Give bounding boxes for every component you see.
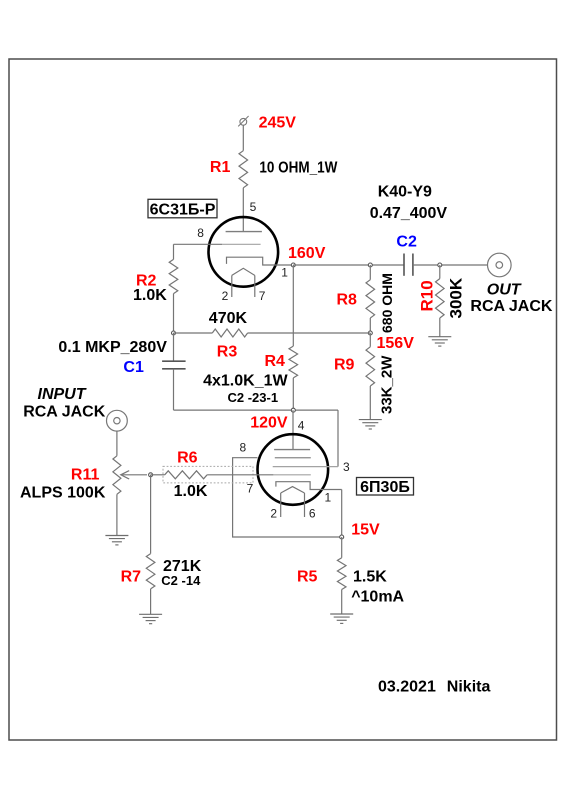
label R5 [297,569,318,586]
wire to R9 [369,333,371,347]
label C1 [123,359,144,376]
wire R1 to U1 plate [242,188,244,232]
svg-text:160V: 160V [288,245,326,262]
value 1.5K [353,569,387,586]
wire 160V bus [293,264,404,266]
svg-text:03.2021: 03.2021 [378,679,436,696]
wire R8 to junction [369,318,371,333]
R11 wiper arrow [121,471,147,479]
wire node A to R3 [174,332,213,334]
svg-text:2: 2 [222,289,229,303]
wire R3 to 156V junction [248,332,371,334]
U2 pin 2 label [270,506,277,520]
svg-text:OUT: OUT [487,282,522,299]
U2 pin 7 label [247,481,254,495]
svg-text:Nikita: Nikita [447,679,491,696]
label R10 [418,280,437,311]
svg-text:RCA JACK: RCA JACK [470,298,553,315]
wire R10 to ground [439,318,441,337]
label 120V [250,415,288,432]
tube U1 envelope [209,217,279,287]
value 0.1 MKP_280V [58,339,167,356]
U1 plate [226,231,262,233]
U2 pin 4 label [298,418,305,432]
U2 plate [274,449,310,451]
label OUT RCA JACK [470,298,553,315]
ground R11 [105,536,128,545]
value C2 -23-1 [228,390,279,405]
svg-text:2: 2 [270,506,277,520]
U1 heater leg pin 2 [231,275,233,297]
svg-text:R3: R3 [217,343,238,360]
svg-text:8: 8 [197,226,204,240]
wire R9 to ground [369,386,371,420]
value 1.0K R6 [174,483,208,500]
label C2 [396,234,417,251]
wire node A to C1 [173,333,175,361]
wire C1 to 120V bus [173,369,175,410]
wire R6 to U2 grid [207,474,273,476]
wire U1 pin 8 grid [174,243,223,245]
wire to R10 [439,265,441,279]
svg-text:R4: R4 [265,353,286,370]
label 15V [351,521,380,538]
svg-text:4: 4 [298,418,305,432]
value K40-Y9 [378,184,432,201]
svg-text:RCA JACK: RCA JACK [23,403,106,420]
U1 cathode [227,257,294,265]
U1 pin 7 label [259,289,266,303]
resistor R1 [239,151,248,188]
value ALPS 100K [20,485,106,502]
svg-text:1.0K: 1.0K [174,483,208,500]
value ^10mA [351,588,404,605]
value 1.0K R2 [133,287,167,304]
ground R7 [139,614,162,623]
svg-text:C2 -14: C2 -14 [161,573,201,588]
tube U2 envelope [258,434,329,505]
U2 pin 6 label [309,506,316,520]
wire wiper down [150,475,152,554]
label 245V [259,114,297,131]
svg-text:0.1 MKP_280V: 0.1 MKP_280V [58,339,167,356]
svg-text:R6: R6 [177,450,198,467]
INPUT RCA jack [107,410,128,431]
label R9 [334,357,355,374]
svg-text:0.47_400V: 0.47_400V [370,205,448,222]
svg-text:R9: R9 [334,357,355,374]
wire to R8 [369,265,371,280]
U2 cathode [276,482,342,490]
ground R9 [359,420,382,429]
svg-text:1.0K: 1.0K [133,287,167,304]
svg-text:5: 5 [250,200,257,214]
value 33K_2W [379,355,396,414]
U2 pin 3 label [343,460,350,474]
OUT RCA jack [488,253,512,277]
U1 pin 8 label [197,226,204,240]
svg-text:R10: R10 [418,280,437,311]
svg-text:ALPS 100K: ALPS 100K [20,485,106,502]
U2 screen grid [275,457,311,459]
label INPUT [38,386,87,403]
wire bus down to pin 3 [337,410,339,467]
svg-text:4x1.0K_1W: 4x1.0K_1W [203,373,288,390]
wire wiper to R6 [151,474,165,476]
U2 beam plate line [273,466,338,468]
svg-text:33K_2W: 33K_2W [379,355,396,414]
wire U2 cathode down [341,490,343,538]
label R2 [136,272,157,289]
wire R5 to ground [341,590,343,615]
svg-text:3: 3 [343,460,350,474]
svg-text:1.5K: 1.5K [353,569,387,586]
resistor R3 [212,329,247,337]
label 470K [209,310,248,327]
value C2 -14 [161,573,201,588]
wire R7 to ground [150,589,152,614]
svg-text:10 OHM_1W: 10 OHM_1W [259,160,338,177]
U2 type box 6P30B [357,478,414,496]
node 120V [291,408,295,412]
node 15V [340,535,344,539]
signature 03.2021 Nikita [378,679,490,696]
capacitor C2 [404,254,413,276]
U1 type box 6C31B-P [148,199,217,218]
svg-text:C2: C2 [396,234,417,251]
U1 pin 2 label [222,289,229,303]
wire jack to R11 [116,431,118,456]
svg-text:C1: C1 [123,359,144,376]
svg-text:6С31Б-Р: 6С31Б-Р [150,201,216,218]
wire R11 to ground [116,494,118,535]
svg-text:R5: R5 [297,569,318,586]
wire 15V to R5 [341,537,343,558]
svg-text:6: 6 [309,506,316,520]
U1 heater [232,268,255,275]
label 156V [377,335,415,352]
U1 pin 1 label [281,266,288,280]
wire grid to R2 [173,244,175,259]
svg-text:15V: 15V [351,521,380,538]
svg-text:6П30Б: 6П30Б [360,479,410,496]
label 160V [288,245,326,262]
svg-text:R8: R8 [337,292,358,309]
wire 160V to R4 [292,265,294,346]
resistor R8 [366,280,375,318]
B+ terminal 245V [238,116,248,126]
node 156V [368,331,372,335]
svg-text:C2 -23-1: C2 -23-1 [228,390,279,405]
resistor R4 [289,346,298,378]
U2 pin 1 label [325,491,332,505]
junction R8 top [368,263,372,267]
value 0.47_400V [370,205,448,222]
label R1 [210,159,231,176]
ground R5 [330,614,353,623]
svg-text:1: 1 [325,491,332,505]
resistor R5 [337,558,346,590]
value 680 OHM [379,273,395,333]
wire C2 to out [413,264,488,266]
U2 control grid [273,474,310,476]
wire R2 to node A [173,294,175,333]
wire B+ to R1 [242,125,244,151]
label R4 [265,353,286,370]
svg-text:R1: R1 [210,159,231,176]
resistor R7 [146,554,155,589]
ground R10 [428,337,451,346]
svg-text:R11: R11 [71,467,100,484]
value 4x1.0K_1W [203,373,288,390]
wire 120V to U2 plate [292,410,294,449]
label R6 [177,450,198,467]
label R11 [71,467,100,484]
value 300K [447,277,466,318]
resistor R6 [165,471,207,479]
svg-text:1: 1 [281,266,288,280]
svg-text:245V: 245V [259,114,297,131]
label R3 [217,343,238,360]
label R8 [337,292,358,309]
svg-text:470K: 470K [209,310,248,327]
potentiometer R11 [113,456,121,495]
label OUT [487,282,522,299]
svg-text:8: 8 [240,441,247,455]
label R7 [121,568,142,585]
capacitor C1 [162,361,186,369]
svg-text:120V: 120V [250,415,288,432]
wire R4 to 120V node [292,378,294,410]
node R10 top [438,263,442,267]
svg-text:680 OHM: 680 OHM [379,273,395,333]
U1 pin 5 label [250,200,257,214]
svg-text:7: 7 [259,289,266,303]
resistor R10 [436,279,445,318]
svg-text:R7: R7 [121,568,142,585]
value 271K [163,558,202,575]
svg-text:INPUT: INPUT [38,386,87,403]
resistor R9 [366,347,375,386]
svg-text:156V: 156V [377,335,415,352]
node 160V [291,263,295,267]
svg-text:300K: 300K [447,277,466,318]
U2 heater leg pin 2 [280,493,282,517]
wire 120V bus [174,409,339,411]
dashed box R6 [163,466,253,483]
svg-text:^10mA: ^10mA [351,588,404,605]
U2 heater leg pin 6 [304,493,306,517]
node A grid bus [172,331,176,335]
U1 heater leg pin 7 [254,275,256,297]
value 10 OHM_1W [259,160,338,177]
wire U2 pin 8 run [233,458,342,537]
resistor R2 [169,259,178,293]
U1 grid [222,243,260,245]
U2 pin 8 label [240,441,247,455]
U2 heater [281,487,305,493]
svg-text:K40-Y9: K40-Y9 [378,184,432,201]
label INPUT RCA JACK [23,403,106,420]
node wiper [149,473,153,477]
